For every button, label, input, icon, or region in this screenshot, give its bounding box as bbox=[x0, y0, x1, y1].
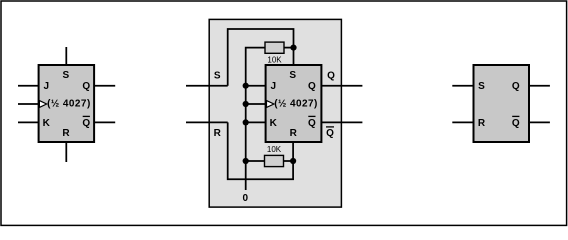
U2 clock wedge bbox=[267, 101, 274, 108]
svg-text:K: K bbox=[43, 118, 51, 129]
wire: bus to K pin bbox=[246, 121, 266, 123]
wire: Q output bbox=[321, 85, 362, 87]
wire: bus to clock pin bbox=[246, 103, 266, 105]
wire: R2 right to reset node bbox=[284, 160, 294, 162]
svg-text:0: 0 bbox=[243, 193, 249, 204]
wire: U3 Q-bar output stub bbox=[529, 121, 550, 123]
svg-text:J: J bbox=[44, 81, 50, 92]
svg-text:J: J bbox=[271, 81, 277, 92]
wire: bus to R1 left bbox=[246, 160, 265, 162]
wire: R1 right to set node bbox=[284, 47, 294, 49]
svg-text:S: S bbox=[62, 70, 69, 81]
wire: U1 J input stub bbox=[18, 85, 39, 87]
svg-text:R: R bbox=[478, 118, 486, 129]
wire: U3 Q output stub bbox=[529, 85, 550, 87]
svg-text:Q: Q bbox=[308, 118, 316, 129]
U1 clock wedge bbox=[39, 101, 46, 108]
svg-text:S: S bbox=[478, 81, 485, 92]
junction dot: set node bbox=[290, 45, 296, 51]
svg-text:R: R bbox=[214, 128, 222, 139]
svg-text:(½ 4027): (½ 4027) bbox=[47, 98, 91, 109]
wire: S input bbox=[186, 85, 228, 87]
svg-text:R: R bbox=[290, 128, 298, 139]
svg-text:Q: Q bbox=[326, 128, 334, 139]
svg-text:10K: 10K bbox=[267, 55, 282, 64]
junction dot: reset node bbox=[290, 158, 296, 164]
svg-text:10K: 10K bbox=[267, 145, 282, 154]
svg-text:Q: Q bbox=[82, 118, 90, 129]
wire: U1 R pin (bottom) bbox=[65, 142, 67, 162]
enclosure box bbox=[209, 19, 341, 207]
junction dot: bus at clock bbox=[243, 101, 249, 107]
junction dot: bus at R2 bbox=[243, 158, 249, 164]
wire: U1 Q-bar output stub bbox=[94, 121, 115, 123]
junction dot: bus at J bbox=[243, 83, 249, 89]
svg-text:Q: Q bbox=[82, 81, 90, 92]
svg-text:Q: Q bbox=[512, 81, 520, 92]
wire: S riser and top run to set pin bbox=[228, 29, 294, 86]
wire: Q-bar output bbox=[321, 121, 362, 123]
svg-text:S: S bbox=[289, 70, 296, 81]
wire: U1 clock input stub bbox=[18, 103, 39, 105]
wire: bus to J pin bbox=[246, 85, 266, 87]
svg-text:(½ 4027): (½ 4027) bbox=[274, 98, 318, 109]
svg-text:Q: Q bbox=[327, 71, 335, 82]
flip-flop U2 body bbox=[266, 65, 322, 142]
wire: U3 R input stub bbox=[452, 121, 473, 123]
wire: ground bus (0 line) bbox=[246, 48, 265, 190]
svg-text:Q: Q bbox=[308, 81, 316, 92]
wire: U1 S pin (top) bbox=[65, 47, 67, 65]
svg-text:Q: Q bbox=[512, 118, 520, 129]
svg-text:R: R bbox=[62, 128, 70, 139]
svg-text:S: S bbox=[214, 71, 221, 82]
wire: R input bbox=[186, 121, 228, 123]
flip-flop U1 body bbox=[39, 65, 95, 142]
wire: R drop and bottom run to reset pin bbox=[228, 122, 293, 179]
junction dot: bus at K bbox=[243, 119, 249, 125]
latch U3 body bbox=[474, 65, 530, 142]
wire: U3 S input stub bbox=[452, 85, 473, 87]
svg-text:K: K bbox=[270, 118, 278, 129]
wire: U1 Q output stub bbox=[94, 85, 115, 87]
resistor R1 (top) 10K bbox=[265, 42, 284, 53]
wire: U1 K input stub bbox=[18, 121, 39, 123]
resistor R2 (bottom) 10K bbox=[265, 155, 284, 166]
